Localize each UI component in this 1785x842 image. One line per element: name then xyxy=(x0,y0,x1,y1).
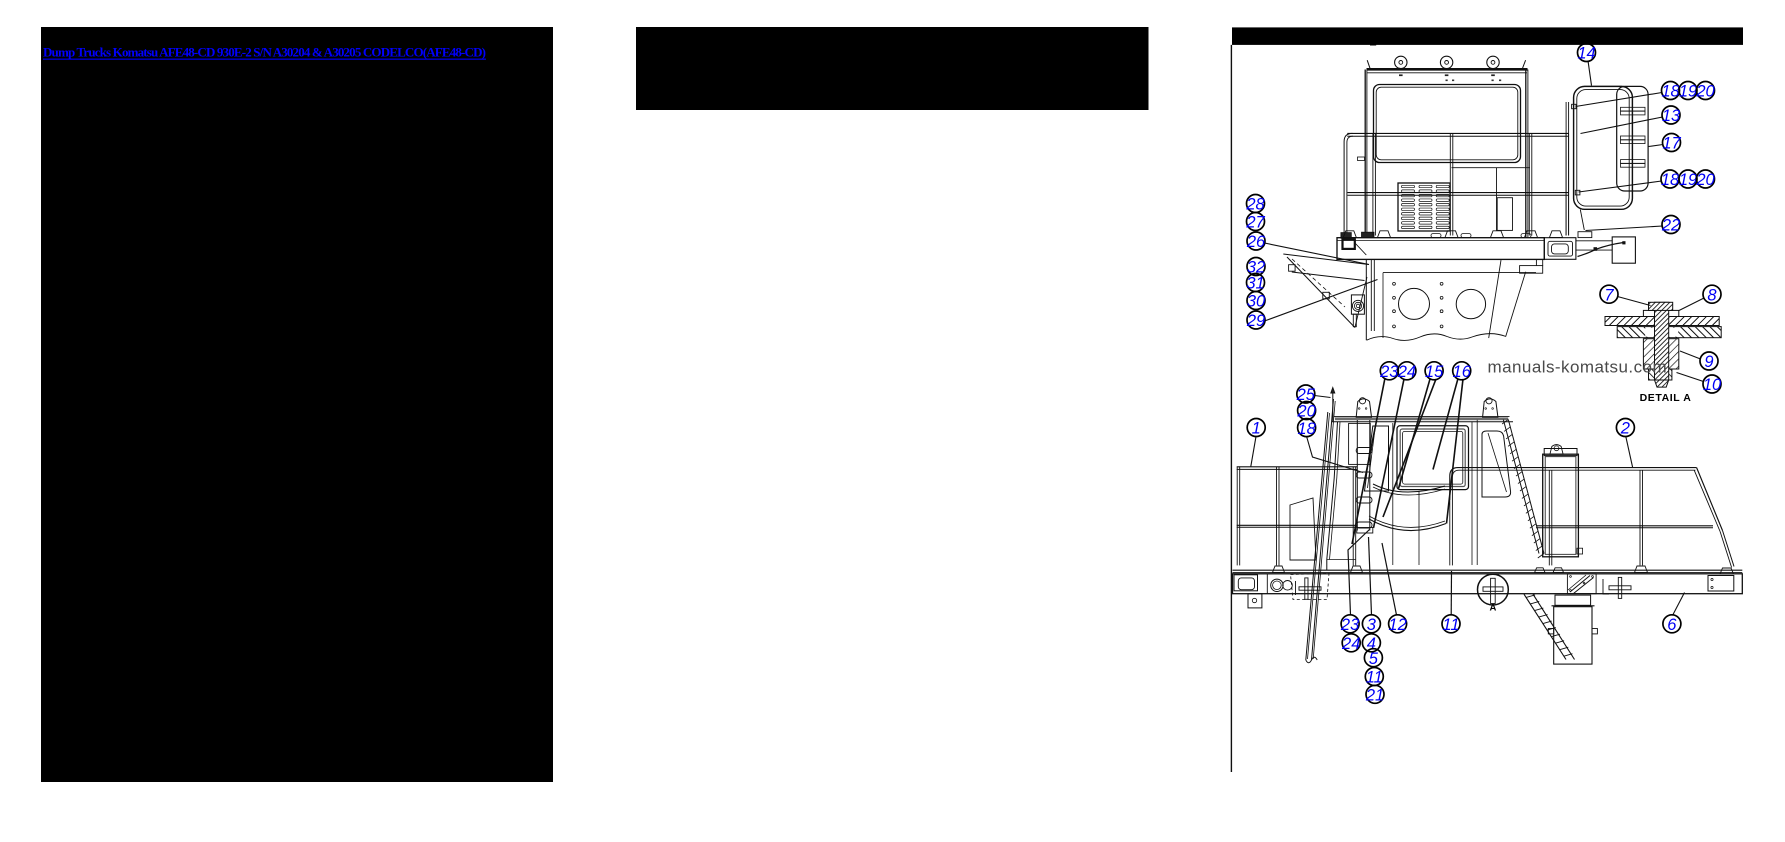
right rail post xyxy=(1639,470,1641,565)
cab front pillar xyxy=(1327,422,1338,570)
leader 18 top xyxy=(1576,93,1663,107)
callout 3 xyxy=(1362,615,1380,634)
leader 10 xyxy=(1677,373,1704,382)
tank fitting xyxy=(1577,548,1583,554)
deck surface lines xyxy=(1233,569,1743,571)
web plate top xyxy=(1383,272,1536,274)
right panel box xyxy=(1497,198,1512,231)
upper handrail top rail xyxy=(1347,132,1568,134)
ladder rung pair xyxy=(1621,136,1646,140)
front box xyxy=(1234,575,1258,591)
ladder clamp bottom xyxy=(1575,190,1580,195)
stringer hatch xyxy=(1522,494,1528,499)
bolt hole xyxy=(1393,325,1396,328)
ladder lower leg xyxy=(1580,210,1584,231)
svg-text:3: 3 xyxy=(1367,616,1377,634)
callout 8 xyxy=(1703,285,1721,304)
svg-text:27: 27 xyxy=(1245,214,1265,232)
stringer hatch xyxy=(1524,501,1530,506)
deck band xyxy=(1337,238,1544,260)
cable end dot xyxy=(1622,241,1625,244)
leader 17 xyxy=(1649,145,1664,147)
bolt hole xyxy=(1393,310,1396,313)
chute rung xyxy=(1564,654,1573,657)
diagram left border line xyxy=(1230,45,1232,772)
svg-text:19: 19 xyxy=(1679,83,1697,101)
cable sag lower xyxy=(1369,516,1445,527)
plate upper hatched xyxy=(1605,317,1719,326)
svg-text:9: 9 xyxy=(1704,353,1713,371)
ladder clamp top xyxy=(1572,104,1576,108)
bolt shaft xyxy=(1655,302,1669,380)
stringer hatch xyxy=(1526,509,1532,513)
stringer hatch xyxy=(1532,531,1538,536)
callout 1 xyxy=(1247,419,1265,438)
svg-text:19: 19 xyxy=(1679,171,1697,189)
svg-text:13: 13 xyxy=(1662,107,1681,125)
mast antenna xyxy=(1332,393,1334,422)
post foot xyxy=(1343,231,1356,238)
post foot xyxy=(1445,231,1458,238)
leader 18 second xyxy=(1579,181,1662,192)
callout 15 xyxy=(1425,362,1444,381)
panel line xyxy=(1452,167,1531,169)
left rail post xyxy=(1352,467,1354,566)
door lower seam xyxy=(1418,492,1420,566)
callout 5 xyxy=(1364,649,1382,668)
post foot dark xyxy=(1341,233,1351,239)
roof dot xyxy=(1492,80,1494,82)
mounting bracket gusset xyxy=(1283,254,1369,265)
leader 11 xyxy=(1450,571,1452,615)
svg-text:12: 12 xyxy=(1388,616,1406,634)
deck bump xyxy=(1431,234,1441,238)
cab side rail by ladder xyxy=(1565,102,1567,236)
chute rung xyxy=(1551,634,1560,637)
svg-text:DETAIL A: DETAIL A xyxy=(1640,392,1692,404)
callout 19 xyxy=(1679,82,1697,101)
stringer hatch xyxy=(1528,516,1534,521)
leader 14 xyxy=(1588,61,1592,86)
air cleaner canister xyxy=(1543,454,1579,557)
handrail post xyxy=(1372,133,1374,235)
web plate left edge xyxy=(1382,273,1384,338)
svg-text:14: 14 xyxy=(1577,45,1595,63)
leader 15a xyxy=(1399,379,1431,489)
post foot xyxy=(1378,231,1391,238)
ladder break wave xyxy=(1306,657,1317,663)
right handrail mid rail xyxy=(1536,525,1713,527)
cable sag upper xyxy=(1373,484,1445,492)
callout 20 xyxy=(1695,170,1715,189)
left handrail top rail xyxy=(1237,466,1357,468)
bolt hole xyxy=(1440,310,1443,313)
bolt head xyxy=(1649,302,1673,310)
svg-text:24: 24 xyxy=(1397,363,1416,381)
svg-text:manuals-komatsu.com: manuals-komatsu.com xyxy=(1488,358,1668,377)
left black panel xyxy=(41,27,553,782)
callout 29 xyxy=(1246,311,1265,330)
leader 23 top xyxy=(1352,378,1385,544)
callout 12 xyxy=(1388,615,1406,634)
svg-text:11: 11 xyxy=(1442,616,1459,634)
svg-text:10: 10 xyxy=(1703,376,1722,394)
callout 19 xyxy=(1679,170,1697,189)
post foot xyxy=(1351,566,1363,573)
leader 13 xyxy=(1581,117,1663,134)
svg-text:20: 20 xyxy=(1695,171,1715,189)
deck bump xyxy=(1461,234,1471,238)
roof dot xyxy=(1499,80,1501,82)
end plate xyxy=(1708,576,1734,592)
callout 28 xyxy=(1245,195,1265,214)
callout 11 xyxy=(1442,615,1460,634)
callout 26 xyxy=(1246,232,1266,251)
rear window xyxy=(1374,85,1521,163)
leader 16b xyxy=(1447,379,1464,524)
bracket lines to junction box xyxy=(1576,240,1612,242)
ladder tube outer xyxy=(1574,86,1633,209)
washer xyxy=(1643,310,1678,316)
leader 29 xyxy=(1265,280,1378,322)
svg-text:29: 29 xyxy=(1246,312,1265,330)
small square hole xyxy=(1323,292,1330,299)
left pillar tick xyxy=(1367,60,1370,68)
right rail slope end xyxy=(1697,468,1723,531)
strip bottom bracket xyxy=(1357,528,1373,534)
middle black panel xyxy=(636,27,1149,110)
leader 6 xyxy=(1673,593,1685,616)
callout 7 xyxy=(1600,285,1618,304)
callout 16 xyxy=(1453,362,1472,381)
ladder rung xyxy=(1356,472,1372,478)
cable xyxy=(1578,243,1624,257)
leader 12 xyxy=(1382,543,1397,615)
frame left vertical xyxy=(1365,259,1367,340)
svg-text:1: 1 xyxy=(1252,420,1261,438)
callout 4 xyxy=(1362,634,1380,653)
leader 8 xyxy=(1679,298,1704,311)
leader 2 xyxy=(1626,437,1633,468)
callout 20 xyxy=(1296,402,1316,421)
diagram top black bar xyxy=(1232,27,1743,45)
bolt hole xyxy=(1393,296,1396,299)
leader 1 xyxy=(1251,437,1256,467)
support pillar neck xyxy=(1555,595,1591,605)
big hole right xyxy=(1456,289,1485,318)
bolt hole xyxy=(1393,282,1396,285)
clearance gaps in lower plate xyxy=(1645,328,1678,337)
band wedge plate xyxy=(1567,574,1596,594)
lifting eye xyxy=(1483,399,1498,417)
right pillar tick xyxy=(1523,60,1526,68)
ladder rung xyxy=(1356,497,1372,503)
stringer hatch xyxy=(1502,420,1508,425)
leader 18 lower xyxy=(1307,437,1363,473)
ladder rung pair xyxy=(1621,160,1646,164)
callout 25 xyxy=(1296,385,1316,404)
rear stair stringer xyxy=(1508,420,1544,554)
chute ladder diagonals xyxy=(1524,594,1566,659)
left lamp box xyxy=(1343,239,1355,249)
roof dot xyxy=(1446,80,1448,82)
stringer hatch xyxy=(1520,487,1526,492)
svg-text:28: 28 xyxy=(1245,196,1265,214)
junction box xyxy=(1612,237,1635,263)
chute rung xyxy=(1556,641,1565,644)
ladder back panel xyxy=(1617,86,1648,191)
chute rung xyxy=(1526,595,1535,598)
quarter window xyxy=(1482,431,1511,497)
door window xyxy=(1397,426,1469,490)
bolt hole xyxy=(1440,325,1443,328)
svg-text:23: 23 xyxy=(1379,363,1399,381)
front fender panel xyxy=(1290,498,1316,560)
post foot xyxy=(1273,566,1285,573)
leader 26 xyxy=(1265,243,1370,265)
svg-text:18: 18 xyxy=(1661,171,1680,189)
leader 23 bottom xyxy=(1348,530,1370,616)
svg-text:16: 16 xyxy=(1453,363,1472,381)
band circles xyxy=(1271,579,1283,591)
roof thick gray band xyxy=(1335,417,1508,420)
svg-text:8: 8 xyxy=(1707,286,1717,304)
cab edge hook xyxy=(1358,157,1365,161)
inclined access ladder xyxy=(1312,399,1334,660)
leader 22 xyxy=(1586,226,1663,231)
lifting eye xyxy=(1356,399,1371,417)
leader 9 xyxy=(1680,351,1701,359)
small square hole xyxy=(1289,265,1296,272)
chute rung xyxy=(1530,601,1539,604)
stringer hatch xyxy=(1536,546,1542,551)
chute rung xyxy=(1543,621,1552,624)
leader 16a xyxy=(1433,379,1458,470)
leader 3 xyxy=(1369,537,1372,615)
wavy bottom edge xyxy=(1367,334,1506,341)
post foot xyxy=(1525,231,1538,238)
stringer hatch xyxy=(1530,524,1536,529)
roof mount xyxy=(1487,56,1499,68)
section A wheel xyxy=(1478,574,1509,605)
door seams xyxy=(1392,423,1394,565)
stringer hatch xyxy=(1506,434,1512,439)
handrail post xyxy=(1528,133,1530,235)
support pillar xyxy=(1552,605,1595,607)
left rail post xyxy=(1236,467,1238,566)
svg-text:A: A xyxy=(1489,603,1496,614)
svg-text:6: 6 xyxy=(1667,616,1677,634)
towing lug xyxy=(1248,594,1262,608)
callout 10 xyxy=(1703,375,1722,394)
svg-text:26: 26 xyxy=(1246,233,1266,251)
upper handrail mid rail xyxy=(1347,192,1568,194)
callout 18 xyxy=(1661,170,1680,189)
windshield xyxy=(1365,426,1389,491)
cab roof line xyxy=(1367,68,1528,71)
post foot xyxy=(1491,231,1504,238)
chute rung xyxy=(1535,608,1544,611)
callout 18 xyxy=(1661,82,1680,101)
svg-text:Dump Trucks Komatsu AFE48-CD 9: Dump Trucks Komatsu AFE48-CD 930E-2 S/N … xyxy=(43,45,486,60)
diagonal struts xyxy=(1489,260,1501,338)
stringer hatch xyxy=(1512,457,1518,462)
callout 32 xyxy=(1247,258,1265,277)
post foot dark xyxy=(1362,232,1375,237)
svg-text:24: 24 xyxy=(1341,635,1360,653)
chute rung xyxy=(1547,628,1556,631)
callout 2 xyxy=(1616,419,1634,438)
stringer hatch xyxy=(1514,464,1520,469)
svg-text:22: 22 xyxy=(1661,217,1680,235)
stringer hatch xyxy=(1516,472,1522,477)
tiedown T-handle left xyxy=(1295,581,1297,595)
left rail post xyxy=(1276,467,1278,566)
post foot xyxy=(1720,568,1734,574)
callout 24 xyxy=(1341,634,1360,653)
cab right edge xyxy=(1525,70,1527,238)
small mark under top bar xyxy=(1370,41,1376,46)
dashed flap xyxy=(1291,574,1330,600)
stringer hatch xyxy=(1538,554,1544,559)
svg-text:18: 18 xyxy=(1297,420,1316,438)
band divider xyxy=(1266,574,1268,594)
stringer hatch xyxy=(1518,479,1524,484)
ladder rung xyxy=(1356,522,1372,528)
svg-text:17: 17 xyxy=(1662,135,1681,153)
callout 21 xyxy=(1365,685,1384,704)
tank foot xyxy=(1535,568,1545,573)
callout 24 xyxy=(1397,362,1416,381)
bolt tip xyxy=(1655,380,1669,387)
svg-text:21: 21 xyxy=(1365,687,1384,705)
callout 14 xyxy=(1577,44,1595,63)
tiedown T-handle right xyxy=(1603,579,1609,594)
bolt hole xyxy=(1440,296,1443,299)
stringer hatch xyxy=(1504,427,1510,432)
callout 23 xyxy=(1340,615,1360,634)
engine grille xyxy=(1398,183,1450,231)
callout 11 xyxy=(1365,668,1383,687)
plate lower hatched xyxy=(1617,327,1721,338)
cab bottom front line xyxy=(1327,559,1356,561)
right rail post xyxy=(1548,470,1550,565)
callout 17 xyxy=(1662,134,1681,153)
leader 24 top xyxy=(1374,379,1405,528)
callout 9 xyxy=(1700,352,1718,371)
right handrail with elbow xyxy=(1450,468,1697,500)
stringer hatch xyxy=(1508,442,1514,447)
svg-text:11: 11 xyxy=(1366,669,1383,687)
roof dot xyxy=(1452,80,1454,82)
callout 18 xyxy=(1297,419,1316,438)
svg-text:31: 31 xyxy=(1246,275,1264,293)
ladder rung pair xyxy=(1621,107,1646,111)
nut xyxy=(1649,369,1672,380)
pump with circles xyxy=(1351,295,1364,314)
tank foot xyxy=(1553,568,1563,573)
svg-text:18: 18 xyxy=(1661,83,1680,101)
left handrail mid rail xyxy=(1237,524,1357,526)
stringer hatch xyxy=(1534,539,1540,544)
handrail post xyxy=(1565,133,1567,235)
callout 20 xyxy=(1695,82,1715,101)
callout 30 xyxy=(1247,292,1266,311)
chute rung xyxy=(1539,615,1548,618)
svg-text:15: 15 xyxy=(1425,363,1444,381)
chute rung xyxy=(1560,647,1569,650)
cab left edge xyxy=(1364,70,1366,238)
svg-text:5: 5 xyxy=(1369,650,1379,668)
svg-text:7: 7 xyxy=(1604,286,1614,304)
stringer hatch xyxy=(1510,449,1516,454)
post foot xyxy=(1635,566,1648,573)
handrail post xyxy=(1449,133,1451,235)
spacer block xyxy=(1643,339,1678,369)
callout 27 xyxy=(1245,213,1265,232)
ladder rung xyxy=(1356,448,1372,454)
front ladder strip xyxy=(1349,423,1371,464)
callout 23 xyxy=(1379,362,1399,381)
post foot xyxy=(1550,231,1563,238)
bolt hole xyxy=(1440,282,1443,285)
svg-text:20: 20 xyxy=(1695,83,1715,101)
leader 15b xyxy=(1383,379,1436,517)
deck bump xyxy=(1521,234,1531,238)
tank bracket xyxy=(1550,445,1563,455)
big hole left xyxy=(1399,288,1430,319)
leader 25 xyxy=(1315,396,1331,398)
svg-text:23: 23 xyxy=(1340,616,1360,634)
headlight box xyxy=(1544,238,1576,260)
roof mount xyxy=(1440,56,1452,68)
callout 6 xyxy=(1663,615,1681,634)
ladder foot xyxy=(1578,232,1592,238)
callout 31 xyxy=(1246,274,1264,293)
gusset bracket right xyxy=(1520,266,1543,274)
leader 7 xyxy=(1618,297,1651,306)
svg-text:30: 30 xyxy=(1247,293,1266,311)
callout 13 xyxy=(1662,106,1681,125)
frame band xyxy=(1233,574,1743,594)
roof mount xyxy=(1395,56,1407,68)
callout 22 xyxy=(1661,216,1680,235)
svg-text:2: 2 xyxy=(1620,420,1630,438)
handrail left elbow post xyxy=(1344,133,1352,232)
